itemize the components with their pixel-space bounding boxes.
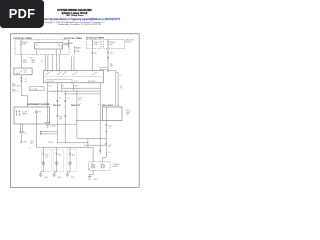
wire stubs to big box right	[100, 67, 108, 71]
switch contact 3	[72, 70, 78, 75]
svg-text:BLK: BLK	[59, 155, 63, 157]
svg-text:ON: ON	[24, 72, 27, 74]
wire headlamp switch feed	[20, 55, 22, 69]
svg-text:BLOCK: BLOCK	[126, 41, 133, 43]
connector marks on out 4	[64, 101, 66, 117]
wire from fuse 11 to switch	[91, 55, 93, 71]
left column connector symbol 2	[12, 90, 16, 92]
svg-text:TN: TN	[59, 98, 61, 100]
branch2 ground	[52, 174, 56, 177]
svg-text:YEL: YEL	[45, 156, 48, 158]
connector marks below right box	[105, 125, 108, 132]
connector mark on left wire	[20, 78, 22, 82]
svg-text:SW: SW	[126, 114, 129, 116]
bus line y91	[47, 90, 100, 92]
header title line 2	[0, 12, 149, 15]
svg-text:C1: C1	[17, 91, 19, 93]
left multifunction switch box	[14, 68, 32, 75]
svg-text:LP: LP	[91, 163, 93, 165]
bus line y88	[62, 88, 100, 91]
header title line 3	[0, 15, 149, 17]
svg-text:G304: G304	[94, 179, 98, 181]
tail lamp box 1	[42, 150, 52, 172]
license lamp 2	[101, 164, 105, 168]
dashed box A: power distribution center	[15, 40, 69, 55]
drop connector marks	[99, 150, 101, 151]
junction dots on bus	[57, 88, 77, 94]
svg-text:INSTRUMENT CLUSTER: INSTRUMENT CLUSTER	[27, 104, 50, 106]
small center-left box	[30, 87, 45, 91]
svg-text:PNL: PNL	[39, 112, 42, 114]
svg-text:G302: G302	[71, 177, 75, 179]
svg-text:GRY/: GRY/	[78, 98, 82, 100]
header copyright line	[0, 22, 149, 24]
right box internal wires	[105, 107, 107, 121]
svg-text:VT: VT	[41, 61, 43, 63]
branch2 connector	[56, 153, 58, 154]
wire switch out 6 (long center)	[76, 91, 78, 138]
svg-text:BLK: BLK	[72, 155, 76, 157]
svg-text:15A: 15A	[76, 50, 80, 53]
svg-text:BK: BK	[60, 118, 63, 120]
svg-text:HOT AT ALL TIMES: HOT AT ALL TIMES	[64, 37, 83, 40]
fuse F2 in box A	[20, 40, 22, 54]
svg-text:C3: C3	[108, 152, 110, 154]
wire trio into headlamp switch	[45, 55, 74, 71]
park bus upper	[84, 144, 106, 146]
svg-text:ILLUM: ILLUM	[22, 112, 27, 114]
fuse F17	[74, 46, 76, 53]
wire below license lamps to ground	[89, 170, 93, 176]
wire left lamp feed	[92, 147, 94, 162]
svg-text:HDLP SW: HDLP SW	[88, 81, 96, 83]
svg-text:C2: C2	[117, 105, 119, 107]
svg-text:BLK/: BLK/	[30, 141, 34, 143]
svg-text:C2: C2	[79, 103, 81, 105]
svg-text:PNK: PNK	[24, 142, 28, 144]
wire right feed from fuse C	[108, 47, 118, 107]
wire below cluster pair	[20, 124, 22, 141]
fuse in box C	[107, 39, 109, 46]
arrow terminator	[20, 141, 22, 143]
header date line	[5, 24, 154, 26]
svg-text:TAIL LPS: TAIL LPS	[53, 104, 62, 107]
svg-text:BK: BK	[120, 87, 123, 89]
horizontal from center vertical to riser	[77, 138, 107, 140]
switch contact 2b	[62, 71, 67, 75]
svg-text:BLK: BLK	[49, 86, 53, 88]
svg-text:BLK: BLK	[78, 99, 82, 101]
tail lamp box 3	[67, 150, 77, 172]
switch contact 2	[57, 71, 62, 75]
ground G100	[44, 122, 50, 127]
svg-text:C1: C1	[120, 75, 122, 77]
svg-text:C12: C12	[110, 53, 113, 55]
svg-text:C4: C4	[88, 169, 90, 171]
svg-text:ORG: ORG	[31, 62, 36, 64]
svg-text:G300: G300	[44, 177, 48, 179]
svg-text:VT/: VT/	[120, 86, 123, 88]
svg-text:LP: LP	[101, 163, 103, 165]
PDF badge	[0, 0, 44, 28]
svg-text:YEL: YEL	[30, 143, 33, 145]
svg-text:STOP: STOP	[126, 110, 130, 112]
connector marks on license feed	[105, 144, 107, 145]
svg-text:RD: RD	[110, 66, 113, 68]
switch linkage dashed line	[45, 75, 102, 77]
wire below right box	[103, 121, 107, 162]
svg-text:S203: S203	[17, 86, 21, 88]
tail branch 2	[54, 147, 57, 174]
switch inner sub-box	[46, 79, 72, 83]
license lamps dashed box	[89, 162, 110, 171]
wire box A feed	[68, 40, 70, 48]
branch3 connector	[69, 153, 71, 154]
connector marks on fuse11 wire	[91, 52, 93, 53]
branch3 ground	[66, 174, 70, 177]
wire relay pin to bottom of box A	[37, 49, 61, 55]
instrument cluster box	[14, 107, 49, 124]
svg-text:BLK/: BLK/	[108, 145, 112, 147]
switch contact 1	[46, 71, 50, 75]
cluster lamp symbol 1	[16, 110, 18, 116]
tail bulb 1	[42, 162, 45, 165]
svg-text:LT: LT	[29, 148, 31, 150]
svg-text:YL: YL	[108, 147, 110, 149]
diagram frame	[10, 34, 139, 188]
horizontal into right box	[77, 120, 103, 122]
tail branch 1	[41, 147, 44, 174]
svg-text:BLK/YL: BLK/YL	[49, 142, 55, 144]
svg-text:G301: G301	[58, 177, 62, 179]
svg-text:7 3 6: 7 3 6	[74, 81, 78, 83]
right box	[103, 107, 123, 121]
mid bus	[57, 142, 88, 144]
connector C1 marks on right feed	[107, 57, 109, 72]
wire switch out 4	[64, 91, 66, 143]
switch contact 4	[92, 72, 98, 75]
wire cluster out to tail bus	[36, 113, 38, 147]
svg-text:C6: C6	[94, 53, 96, 55]
relay contacts	[37, 44, 62, 48]
headlamp relay K1 box	[34, 43, 62, 49]
wire right pair from C12	[116, 72, 118, 74]
svg-text:G100: G100	[51, 126, 55, 128]
wire right bus riser	[87, 139, 89, 148]
svg-text:PK: PK	[25, 82, 28, 84]
svg-text:GRY: GRY	[75, 86, 79, 88]
header link line (blue)	[0, 18, 149, 21]
wire switch out 2	[56, 83, 58, 143]
wire switch out 3	[61, 83, 63, 91]
svg-text:BLK/: BLK/	[109, 126, 113, 128]
cluster lamp symbol 2	[19, 110, 21, 116]
ground left tail	[39, 174, 43, 177]
branch1 connector	[42, 153, 44, 154]
wire from fuse 17 down	[75, 47, 93, 55]
arrow wire to DRL left upper	[40, 131, 57, 132]
header title line 1	[0, 9, 149, 12]
svg-text:P H B 1 R 2: P H B 1 R 2	[46, 81, 54, 83]
dashed box C: junction block right	[104, 39, 125, 48]
svg-text:HOT AT ALL TIMES: HOT AT ALL TIMES	[86, 36, 105, 39]
svg-text:GY: GY	[67, 98, 69, 100]
dashed box B: junction block left	[87, 39, 101, 48]
wire switch out 7	[99, 83, 101, 148]
wire switch out 5	[73, 83, 75, 91]
svg-text:C1: C1	[25, 79, 27, 81]
svg-text:DRL MOD: DRL MOD	[31, 89, 39, 91]
tail lamp box 2	[54, 150, 64, 172]
bus line y94	[65, 93, 100, 95]
switch contact 1b	[50, 71, 53, 72]
svg-text:YL: YL	[109, 128, 111, 130]
svg-text:WHT: WHT	[23, 62, 27, 64]
svg-text:OFF: OFF	[24, 70, 27, 72]
headlamp switch main box	[43, 71, 103, 83]
tail lamp bus	[37, 146, 94, 148]
license lamp 1	[91, 164, 95, 168]
svg-text:LICENSE: LICENSE	[113, 164, 120, 166]
svg-text:BLK/: BLK/	[45, 155, 49, 157]
wire from left switch down	[21, 75, 27, 107]
tail bulb 2	[55, 162, 58, 165]
svg-text:RELAY: RELAY	[64, 44, 70, 47]
wire cluster to park feed	[49, 123, 77, 125]
junction dot	[76, 120, 78, 122]
cluster illumination lamp on output wire	[35, 111, 38, 114]
drop from bus at x100	[99, 147, 101, 154]
svg-text:18: 18	[98, 104, 100, 106]
svg-text:C1: C1	[53, 91, 55, 93]
arrow wire to DRL left lower	[40, 133, 57, 134]
fuse in box B	[92, 39, 94, 46]
svg-text:C2: C2	[24, 133, 26, 135]
svg-text:HOT AT ALL TIMES: HOT AT ALL TIMES	[13, 37, 32, 40]
svg-text:VT/: VT/	[61, 86, 64, 88]
connector mark on out 2	[56, 101, 58, 117]
svg-text:REAR LAMPS: REAR LAMPS	[102, 104, 114, 107]
tail branch 3	[67, 147, 70, 174]
connector marks on right feed top	[107, 52, 109, 53]
ground G301	[88, 177, 92, 180]
tail bulb 3	[69, 162, 72, 165]
left column connector symbol 1	[12, 83, 16, 87]
svg-text:S202: S202	[29, 57, 33, 59]
switch contact in left box	[16, 70, 23, 73]
wire switch out 1 (to ground G100)	[46, 83, 48, 122]
connector marks below cluster	[19, 132, 24, 135]
